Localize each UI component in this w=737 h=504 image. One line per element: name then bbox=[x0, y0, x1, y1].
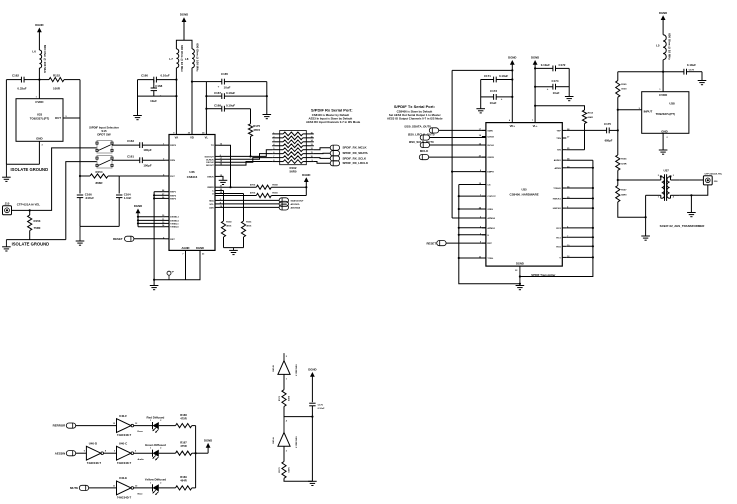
wire to xfmr primary bbox=[618, 179, 661, 181]
svg-text:7: 7 bbox=[273, 156, 274, 158]
wire dssel1 bbox=[138, 216, 165, 218]
svg-text:1: 1 bbox=[150, 448, 151, 450]
resistor network R162 bbox=[272, 131, 314, 174]
svg-text:GND: GND bbox=[36, 137, 42, 141]
svg-text:R170: R170 bbox=[279, 467, 281, 473]
svg-text:VD: VD bbox=[190, 136, 194, 140]
svg-text:4: 4 bbox=[273, 143, 274, 146]
resistor R154 bbox=[80, 170, 119, 185]
ground (osc) bbox=[308, 481, 317, 485]
svg-text:U38: U38 bbox=[669, 102, 675, 106]
svg-text:RST: RST bbox=[487, 243, 492, 245]
svg-text:464R: 464R bbox=[180, 479, 186, 483]
svg-text:R169: R169 bbox=[180, 475, 187, 479]
svg-text:OMCK: OMCK bbox=[487, 157, 494, 159]
svg-text:RC0: RC0 bbox=[556, 246, 561, 248]
U36 left pins bbox=[162, 144, 180, 241]
svg-text:HWCK0: HWCK0 bbox=[553, 208, 562, 210]
svg-text:56R0: 56R0 bbox=[287, 467, 289, 473]
svg-text:OUT: OUT bbox=[55, 116, 61, 120]
svg-text:3: 3 bbox=[673, 175, 674, 177]
label S/PDIF Rx Serial Port bbox=[306, 108, 361, 124]
svg-text:VL: VL bbox=[205, 136, 209, 140]
svg-text:475R: 475R bbox=[180, 416, 186, 420]
svg-text:2: 2 bbox=[160, 448, 161, 450]
svg-text:600 Ohm @ 100 MHz: 600 Ohm @ 100 MHz bbox=[195, 43, 199, 72]
connector RESET (right) bbox=[426, 241, 446, 246]
wire xfmr gnd rail bbox=[645, 195, 647, 236]
svg-text:C160: C160 bbox=[141, 74, 148, 78]
switch S15 section 2 bbox=[96, 156, 113, 169]
svg-text:75R0: 75R0 bbox=[34, 226, 41, 230]
connector RERROR bbox=[53, 423, 76, 428]
svg-text:VA: VA bbox=[175, 136, 179, 140]
connector I2S0_SCLK_OUT0 bbox=[409, 140, 434, 148]
svg-text:U36: U36 bbox=[189, 170, 195, 174]
wire xfmr secondary bottom bbox=[679, 185, 707, 195]
svg-text:R160: R160 bbox=[226, 222, 232, 224]
svg-text:U35: U35 bbox=[522, 188, 528, 192]
svg-text:Mute: Mute bbox=[138, 493, 144, 496]
connector RESET (left) bbox=[113, 236, 134, 241]
inductor L6 bbox=[32, 45, 46, 74]
svg-text:SDIN: SDIN bbox=[487, 130, 493, 132]
connector MUTE bbox=[70, 485, 89, 490]
svg-text:DGND: DGND bbox=[508, 55, 516, 59]
wire isolate ground lower bbox=[6, 239, 65, 241]
wire strap left 227.8 bbox=[459, 227, 486, 229]
svg-text:SDA: SDA bbox=[209, 199, 214, 202]
wire AGND stub bbox=[185, 250, 187, 279]
power flag DGND (LEDs) bbox=[204, 438, 212, 453]
svg-text:C175: C175 bbox=[604, 122, 611, 126]
U35 top pin labels bbox=[509, 119, 538, 128]
svg-text:RXP2: RXP2 bbox=[170, 195, 176, 197]
wire U40-C out bbox=[134, 452, 153, 454]
svg-text:3: 3 bbox=[273, 140, 274, 142]
wire LED to R Yellow Diffused bbox=[159, 487, 176, 489]
junction TX/RERR bbox=[229, 186, 231, 188]
svg-text:15: 15 bbox=[311, 136, 313, 138]
svg-text:AD0: AD0 bbox=[209, 206, 214, 209]
svg-text:AGND: AGND bbox=[182, 246, 190, 250]
wire OSCLK to RN bbox=[219, 158, 272, 163]
wire dssel0 bbox=[138, 219, 165, 221]
svg-text:TXSEL1: TXSEL1 bbox=[170, 223, 179, 225]
wire R152 to OUT bbox=[79, 80, 81, 118]
svg-text:EMPH: EMPH bbox=[487, 172, 494, 174]
resistor R161 bbox=[219, 194, 252, 248]
U35 left pins bbox=[479, 129, 496, 260]
label ISOLATE GROUND (upper) bbox=[11, 167, 49, 172]
wire left rail bbox=[5, 80, 7, 165]
svg-text:74HC04D-T: 74HC04D-T bbox=[87, 461, 102, 465]
svg-text:TCBLD: TCBLD bbox=[553, 188, 561, 190]
junction txsel1 bbox=[137, 222, 139, 224]
wire U40-D out bbox=[104, 452, 117, 454]
svg-text:680pF: 680pF bbox=[605, 139, 613, 143]
junction C175 bbox=[617, 129, 619, 131]
svg-text:CTP-021A-N-YEL: CTP-021A-N-YEL bbox=[705, 172, 723, 175]
svg-text:U40-B: U40-B bbox=[272, 365, 275, 372]
junction VL+ tap2 bbox=[534, 86, 536, 88]
svg-text:C172: C172 bbox=[559, 63, 566, 67]
svg-text:DGND: DGND bbox=[302, 173, 310, 177]
junction VD cap tap bbox=[191, 81, 193, 83]
svg-text:RXP1: RXP1 bbox=[170, 192, 176, 194]
svg-text:C161: C161 bbox=[127, 154, 134, 158]
regulator U33 bbox=[16, 97, 67, 147]
svg-text:47K5: 47K5 bbox=[253, 128, 260, 132]
svg-text:R158: R158 bbox=[272, 184, 278, 186]
svg-text:INPUT: INPUT bbox=[644, 110, 653, 114]
connector AD1/SCL bbox=[279, 201, 300, 206]
wire rxp3 bbox=[154, 197, 165, 199]
junction VL tap2 bbox=[205, 108, 207, 110]
svg-text:0.10uF: 0.10uF bbox=[226, 104, 235, 108]
junction secondary gnd bbox=[690, 194, 692, 196]
U36 right pins bbox=[204, 144, 222, 210]
svg-text:10uF: 10uF bbox=[224, 86, 231, 90]
wire U40-B to R171 bbox=[283, 374, 285, 389]
svg-text:1: 1 bbox=[150, 482, 151, 484]
wire L5 down bbox=[662, 60, 664, 92]
wire bus to DGND bbox=[196, 452, 209, 454]
wire INPUT bbox=[618, 109, 642, 111]
wire xfmr secondary top bbox=[679, 179, 703, 181]
svg-text:10uF: 10uF bbox=[553, 91, 560, 95]
wire strap TCBLD bbox=[566, 187, 593, 189]
wire EMPH bbox=[452, 171, 486, 173]
svg-text:604R: 604R bbox=[588, 116, 594, 119]
wire C160 left rail bbox=[137, 80, 139, 116]
wire SCKOUT to RN bbox=[219, 150, 272, 157]
svg-text:3K01: 3K01 bbox=[246, 226, 252, 228]
power flag DGND (top-right) bbox=[659, 11, 667, 35]
junction cap right bbox=[266, 95, 268, 97]
resistor R169 bbox=[176, 475, 192, 490]
wire RESET to U35 bbox=[446, 242, 486, 244]
svg-text:60R9: 60R9 bbox=[621, 194, 627, 196]
svg-text:H/S: H/S bbox=[557, 150, 561, 152]
svg-text:11: 11 bbox=[311, 152, 313, 154]
svg-text:C171: C171 bbox=[484, 74, 491, 78]
wire U40-A to R170 bbox=[283, 446, 285, 461]
junction R175/SCKOUT bbox=[249, 155, 251, 157]
junction strap RC1 bbox=[592, 236, 594, 238]
svg-text:COPY/C: COPY/C bbox=[487, 196, 496, 198]
svg-text:SPDIF_RX_SDATA: SPDIF_RX_SDATA bbox=[343, 151, 369, 155]
svg-text:ORIG: ORIG bbox=[487, 209, 493, 211]
junction DGND stub bbox=[519, 275, 521, 277]
capacitor C176 bbox=[309, 403, 325, 481]
svg-text:I2S0_SDATA_OUT0: I2S0_SDATA_OUT0 bbox=[404, 124, 431, 128]
junction strap HWCK0 bbox=[592, 207, 594, 209]
connector I2S0_SDATA_OUT0 bbox=[404, 124, 438, 133]
wire VA rail bbox=[175, 68, 177, 135]
svg-text:56R0: 56R0 bbox=[290, 169, 297, 173]
resistor R165 bbox=[616, 72, 628, 110]
wire RN to SPDIF_RX_SCLK bbox=[314, 157, 330, 160]
wire U40-F out bbox=[134, 425, 153, 427]
svg-text:74HC04D-T: 74HC04D-T bbox=[117, 461, 132, 465]
resistor R170 bbox=[279, 462, 289, 479]
wire R to bus R169 bbox=[192, 487, 196, 489]
svg-text:Error: Error bbox=[138, 431, 143, 433]
wire R160/R161 bottom bbox=[224, 247, 244, 249]
wire strap left 234.8 bbox=[459, 234, 486, 236]
label ISOLATE GROUND (lower) bbox=[12, 242, 50, 247]
op-amp U36 CS8416 body bbox=[169, 135, 215, 251]
junction strap HWCK1 bbox=[592, 197, 594, 199]
junction VA cap tap2 bbox=[175, 95, 177, 97]
ground (C178) bbox=[698, 81, 707, 85]
svg-text:DGND: DGND bbox=[35, 23, 43, 27]
wire APMS0 bbox=[452, 217, 486, 219]
svg-text:CS: CS bbox=[487, 185, 491, 187]
wire pullup to VD bbox=[452, 69, 512, 71]
svg-text:C163: C163 bbox=[127, 139, 134, 143]
wire OUT pin bbox=[63, 117, 80, 119]
wire U35 pullup bus bbox=[451, 70, 453, 218]
svg-text:U40-F: U40-F bbox=[119, 414, 127, 418]
wire L6 to node bbox=[38, 68, 40, 99]
svg-text:1: 1 bbox=[150, 420, 151, 422]
svg-text:10: 10 bbox=[311, 156, 313, 158]
svg-text:CS8406_HARDWARE: CS8406_HARDWARE bbox=[510, 192, 539, 196]
svg-text:TO92337L(PT): TO92337L(PT) bbox=[30, 116, 49, 120]
wire AGND/DGND bottom bbox=[154, 250, 200, 279]
svg-text:TCBL: TCBL bbox=[487, 258, 493, 260]
svg-text:ISOLATE GROUND: ISOLATE GROUND bbox=[12, 242, 50, 247]
svg-text:AD0/SDA: AD0/SDA bbox=[291, 206, 301, 209]
wire strap APMS bbox=[566, 167, 593, 169]
svg-text:DPDT SW: DPDT SW bbox=[97, 132, 111, 136]
junction DGND stub2 bbox=[519, 283, 521, 285]
svg-text:0.10uF: 0.10uF bbox=[687, 63, 696, 67]
svg-text:R165: R165 bbox=[621, 84, 627, 86]
wire strap V bbox=[566, 256, 593, 258]
svg-text:U37: U37 bbox=[664, 168, 670, 172]
resistor R158 bbox=[219, 183, 306, 189]
svg-text:R161: R161 bbox=[246, 222, 252, 224]
svg-text:100R: 100R bbox=[53, 87, 61, 91]
svg-text:L7: L7 bbox=[169, 57, 173, 61]
op-amp inverter U40-B bbox=[272, 353, 298, 380]
junction strap left 209.0 bbox=[458, 208, 460, 210]
svg-text:475R: 475R bbox=[180, 444, 186, 448]
junction R153 top bbox=[29, 209, 31, 211]
op-amp inverter U40-D bbox=[84, 442, 107, 465]
label SC937 transformer bbox=[660, 224, 706, 228]
wire strap RC1 bbox=[566, 236, 593, 238]
svg-text:OLRCK: OLRCK bbox=[206, 159, 214, 161]
wire H/S pin bbox=[566, 149, 584, 151]
svg-text:SCKOUT: SCKOUT bbox=[204, 156, 214, 158]
resistor R152 bbox=[39, 73, 80, 90]
svg-text:1.0nF: 1.0nF bbox=[124, 196, 132, 200]
wire xfmr primary bottom bbox=[646, 194, 661, 196]
U36 top pin labels bbox=[173, 131, 208, 139]
wire VL+ to R164 bbox=[535, 106, 584, 110]
svg-text:100pF: 100pF bbox=[143, 148, 152, 152]
wire SDA/CDOUT bbox=[219, 199, 279, 201]
svg-text:VL+: VL+ bbox=[533, 124, 538, 128]
wire C178 to gnd bbox=[701, 72, 703, 81]
svg-text:74HC04D-T: 74HC04D-T bbox=[295, 436, 298, 448]
regulator U38 bbox=[639, 89, 689, 139]
svg-text:74HC04D-T: 74HC04D-T bbox=[117, 496, 132, 500]
svg-text:MUTE: MUTE bbox=[70, 486, 78, 490]
connector SPDIF_RX_SDATA bbox=[330, 151, 368, 156]
svg-text:5: 5 bbox=[273, 148, 274, 150]
wire VL rail bbox=[205, 82, 207, 135]
svg-text:APMS0: APMS0 bbox=[487, 217, 495, 220]
power flag DGND (VD+) bbox=[508, 55, 516, 122]
svg-text:100pF: 100pF bbox=[143, 163, 152, 167]
ground (RXP strap) bbox=[150, 286, 159, 290]
svg-text:ISOLATE GROUND: ISOLATE GROUND bbox=[11, 167, 49, 172]
connector SPDIF_RX_SCLK bbox=[330, 156, 367, 161]
ground (secondary) bbox=[687, 213, 696, 217]
svg-text:AUDIO: AUDIO bbox=[554, 159, 561, 162]
op-amp inverter U40-F bbox=[113, 414, 143, 437]
op-amp inverter U40-A bbox=[272, 417, 298, 453]
wire rxp1 bbox=[154, 191, 165, 193]
wire U33 GND pin bbox=[38, 141, 40, 164]
wire AD1/SCL bbox=[219, 203, 279, 205]
svg-text:L6: L6 bbox=[32, 50, 36, 54]
svg-text:10uF: 10uF bbox=[150, 99, 157, 103]
wire LED bus bbox=[195, 426, 197, 488]
wire txsel0 bbox=[138, 226, 165, 228]
junction FILT left bbox=[79, 175, 81, 177]
svg-text:TXSEL0: TXSEL0 bbox=[170, 227, 179, 229]
svg-text:I2S0_SCLK_OUT0: I2S0_SCLK_OUT0 bbox=[409, 140, 434, 144]
svg-text:ILRCK: ILRCK bbox=[487, 137, 494, 139]
svg-text:CVDD: CVDD bbox=[35, 100, 43, 104]
wire isolate ground bbox=[6, 163, 39, 165]
svg-text:.047uF: .047uF bbox=[85, 196, 94, 200]
svg-text:Red Diffused: Red Diffused bbox=[146, 415, 164, 419]
ground (xfmr primary) bbox=[641, 236, 650, 240]
junction strap APMS bbox=[592, 167, 594, 169]
connector J36 RCA jack bbox=[703, 172, 722, 185]
ground (C160/C168) bbox=[133, 116, 142, 120]
svg-text:CVDD: CVDD bbox=[659, 93, 667, 97]
label SPDIF Transmitter bbox=[531, 273, 556, 277]
svg-text:DGND: DGND bbox=[196, 246, 204, 250]
wire RN to SPDIF_RX_MCLK bbox=[314, 148, 330, 150]
svg-text:R159: R159 bbox=[272, 193, 278, 195]
wire divider rail2 bbox=[617, 170, 619, 185]
wire R to bus R168 bbox=[192, 425, 196, 427]
connector SPDIF_RX_LRCLK bbox=[330, 161, 369, 166]
capacitor C164 bbox=[116, 192, 131, 226]
svg-text:R171: R171 bbox=[279, 395, 281, 401]
connector J10 RCA jack bbox=[3, 202, 41, 215]
power flag DGND (VL+) bbox=[531, 55, 539, 122]
capacitor C162 bbox=[6, 73, 39, 90]
op-amp inverter U40-C bbox=[114, 442, 144, 465]
junction CVDD right bbox=[662, 71, 664, 73]
resistor R159 bbox=[219, 192, 306, 198]
resistor R168 bbox=[176, 413, 192, 428]
junction rxp3 bbox=[153, 197, 155, 199]
svg-text:RERROR: RERROR bbox=[53, 424, 66, 428]
junction node CVDD bbox=[38, 79, 40, 81]
svg-text:AD1/SCL: AD1/SCL bbox=[291, 203, 301, 206]
ground (isolate lower) bbox=[2, 240, 11, 251]
wire RN to SPDIF_RX_SDATA bbox=[314, 152, 330, 154]
svg-text:2: 2 bbox=[160, 482, 161, 484]
svg-text:VD+: VD+ bbox=[510, 124, 516, 128]
svg-text:1K00: 1K00 bbox=[621, 89, 627, 91]
svg-text:OSCLK: OSCLK bbox=[206, 162, 214, 164]
svg-text:APMS: APMS bbox=[554, 167, 561, 170]
wire TX bbox=[219, 145, 231, 187]
junction dssel0 bbox=[137, 219, 139, 221]
capacitor C178 bbox=[663, 63, 702, 75]
wire VD-VL link bbox=[192, 81, 206, 83]
svg-text:DGND: DGND bbox=[308, 367, 316, 371]
svg-text:Audio: Audio bbox=[138, 458, 145, 461]
wire rxp2 bbox=[154, 194, 165, 196]
svg-text:HWCK1: HWCK1 bbox=[553, 198, 562, 200]
svg-text:RERR: RERR bbox=[207, 187, 214, 189]
wire U35 strap bus left bbox=[459, 185, 520, 284]
wire U38 gnd bbox=[662, 133, 664, 150]
wire strap left 184.5 bbox=[459, 184, 486, 186]
svg-text:FILT: FILT bbox=[170, 176, 175, 178]
connector AES3IN bbox=[55, 451, 76, 456]
capacitor C166 bbox=[77, 192, 94, 226]
wire txsel1 bbox=[138, 222, 165, 224]
svg-text:RXN: RXN bbox=[170, 160, 175, 162]
svg-text:DGND: DGND bbox=[180, 13, 188, 17]
svg-text:R166: R166 bbox=[621, 159, 627, 161]
junction INPUT bbox=[617, 109, 619, 111]
wire FILT net left rail bbox=[79, 176, 81, 194]
svg-text:CTP-021A-N-YEL: CTP-021A-N-YEL bbox=[17, 202, 41, 206]
svg-text:R168: R168 bbox=[180, 413, 187, 417]
svg-text:AES3 IO Output Channels 0-7 in: AES3 IO Output Channels 0-7 in I2S Mode bbox=[387, 116, 443, 120]
svg-text:9: 9 bbox=[312, 160, 313, 162]
wire I2S0_LRCLK_OUT0 bbox=[430, 137, 486, 139]
wire C172 right rail bbox=[568, 68, 570, 96]
resistor R171 bbox=[279, 390, 289, 407]
wire RERROR input bbox=[76, 425, 117, 427]
svg-text:R167: R167 bbox=[621, 190, 627, 192]
ground (C171/C173) bbox=[476, 109, 485, 113]
power flag DGND (osc) bbox=[308, 367, 316, 402]
wire R171 to node bbox=[284, 407, 312, 417]
test point TP1 bbox=[167, 271, 175, 280]
connector SPDIF_RX_MCLK bbox=[330, 145, 367, 150]
junction VD+ tap1 bbox=[511, 78, 513, 80]
svg-text:8: 8 bbox=[273, 160, 274, 162]
svg-text:SC937-02_AES_TRANSFORMER: SC937-02_AES_TRANSFORMER bbox=[660, 224, 706, 228]
resistor R164 bbox=[582, 110, 593, 150]
svg-text:R152: R152 bbox=[53, 73, 60, 77]
wire FILT pin bbox=[119, 175, 165, 177]
svg-text:SPDIF_RX_SCLK: SPDIF_RX_SCLK bbox=[343, 156, 368, 160]
svg-text:866R: 866R bbox=[96, 181, 104, 185]
wire strap left 209.0 bbox=[459, 208, 486, 210]
resistor R153 bbox=[28, 210, 41, 239]
resistor R167b bbox=[176, 440, 192, 455]
junction VD+ tap2 bbox=[511, 96, 513, 98]
